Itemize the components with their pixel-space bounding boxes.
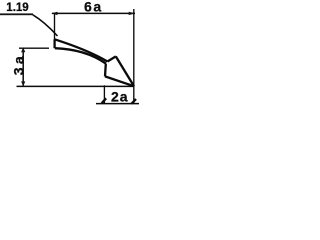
dimension line 3a bbox=[22, 48, 24, 86]
leader line from label to arrow tail bbox=[33, 15, 58, 36]
arrow body top edge bbox=[55, 39, 108, 61]
arrow head bottom edge bbox=[105, 76, 134, 86]
svg-text:6a: 6a bbox=[84, 0, 103, 14]
arrow body bottom edge bbox=[55, 48, 106, 63]
arrowhead top of 3a bbox=[21, 47, 25, 52]
extension line left (arrow tail) bbox=[54, 13, 56, 39]
extension line left of 2a bbox=[103, 85, 105, 103]
svg-text:1.19: 1.19 bbox=[6, 2, 28, 14]
arrow tail edge bbox=[53, 39, 55, 48]
extension line right (arrow tip, full height) bbox=[133, 9, 135, 104]
arrow head front edge bbox=[116, 56, 134, 86]
svg-text:2a: 2a bbox=[111, 88, 129, 104]
underline of label 1.19 bbox=[0, 13, 33, 15]
arrow head back-top edge bbox=[108, 56, 116, 61]
dimension line 2a bbox=[96, 103, 139, 105]
extension line top of 3a bbox=[19, 47, 49, 49]
oblique tick right of 2a bbox=[131, 99, 136, 104]
arrowhead left of 6a bbox=[51, 12, 58, 15]
svg-text:3a: 3a bbox=[10, 53, 26, 75]
baseline at arrow tip level bbox=[17, 85, 135, 87]
dimension line 6a bbox=[52, 12, 135, 14]
arrowhead right of 6a bbox=[129, 12, 136, 15]
arrow back-lower edge bbox=[104, 64, 107, 77]
arrowhead bottom of 3a bbox=[21, 81, 25, 86]
oblique tick left of 2a bbox=[102, 98, 106, 103]
